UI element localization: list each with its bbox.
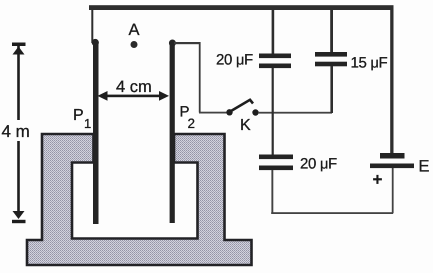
- svg-text:20 μF: 20 μF: [216, 52, 253, 69]
- wire corner down to switch level: [199, 42, 201, 113]
- svg-text:P: P: [73, 107, 84, 124]
- wire C2 top stub: [330, 9, 333, 53]
- svg-text:A: A: [129, 21, 140, 39]
- svg-text:K: K: [240, 117, 251, 134]
- svg-text:20 μF: 20 μF: [300, 156, 337, 173]
- svg-text:1: 1: [84, 116, 91, 131]
- svg-text:E: E: [419, 158, 430, 176]
- wire right bus down to battery: [390, 9, 393, 153]
- wire top bus: [89, 5, 394, 10]
- plate P1: [93, 44, 99, 224]
- capacitor C1 20uF bottom plate: [259, 64, 291, 69]
- battery E long terminal: [370, 164, 414, 169]
- wire C1 bottom to C3: [272, 68, 274, 155]
- wire C1 top stub: [272, 9, 275, 54]
- capacitor C2 15uF bottom plate: [315, 62, 347, 67]
- dimension arrow 4 m (left): [12, 43, 26, 224]
- wire to switch left: [199, 112, 228, 114]
- svg-text:15 μF: 15 μF: [351, 55, 388, 72]
- capacitor C3 20uF bottom plate: [259, 166, 293, 171]
- svg-text:4 m: 4 m: [2, 122, 30, 141]
- wire P1 riser: [91, 9, 93, 43]
- wire battery bottom stub: [392, 168, 394, 213]
- wire C2 bottom stub: [330, 66, 333, 113]
- capacitor C2 15uF top plate: [315, 52, 347, 57]
- switch K left contact: [226, 109, 232, 115]
- plate P2: [170, 44, 175, 223]
- node dot P2: [169, 40, 176, 47]
- container vessel (stippled tank): [27, 134, 252, 265]
- svg-text:+: +: [373, 170, 383, 189]
- capacitor C3 20uF top plate: [259, 155, 293, 160]
- switch K right contact: [252, 109, 258, 115]
- wire switch right to C2 stub: [258, 112, 332, 114]
- point A dot: [131, 41, 138, 48]
- battery E short terminal: [380, 153, 405, 159]
- dimension arrow 4 cm: [98, 91, 170, 101]
- wire C3 bottom stub: [271, 170, 273, 214]
- wire P2 to corner: [174, 42, 200, 44]
- switch K lever: [231, 100, 253, 111]
- capacitor C1 20uF top plate: [259, 54, 291, 59]
- wire bottom return: [271, 212, 393, 214]
- svg-text:2: 2: [188, 116, 196, 131]
- svg-text:4 cm: 4 cm: [116, 78, 152, 96]
- node dot P1: [92, 39, 99, 46]
